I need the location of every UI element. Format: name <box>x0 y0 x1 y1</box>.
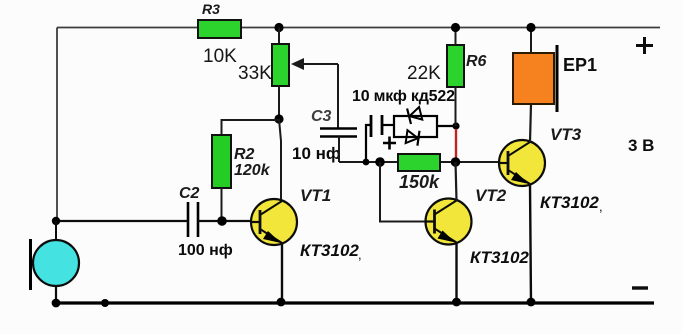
resistor R2 <box>212 135 231 188</box>
node 150k right junction <box>451 157 461 167</box>
wire 33K bottom lead <box>278 86 280 119</box>
node A top junction of 33K <box>274 23 283 32</box>
wire collector VT1 <box>279 119 281 200</box>
wiper arrow of 33K <box>302 63 338 65</box>
wire red segment <box>455 129 457 158</box>
node R6 top on rail <box>451 23 460 32</box>
wire R6 bottom lead <box>455 87 457 126</box>
resistor 33K (trimmer) <box>272 44 289 86</box>
wire mic to C2 <box>57 220 188 222</box>
node B junction 33K/R2/VT1 collector <box>274 114 283 123</box>
sounder EP1 <box>530 28 532 54</box>
svg-text:120k: 120k <box>234 162 271 179</box>
resistor R6 <box>447 45 464 87</box>
wire VT2 collector <box>456 162 457 201</box>
svg-text:VT2: VT2 <box>475 186 507 205</box>
wire wiper to C3 top <box>337 64 339 128</box>
wire 33K top lead <box>278 28 280 45</box>
node C4 left on base net <box>363 159 370 166</box>
svg-text:R3: R3 <box>202 1 220 17</box>
node mic bottom on rail <box>52 299 61 308</box>
wire R2 bottom lead <box>221 188 223 221</box>
node VT3 emitter on rail <box>527 298 536 307</box>
svg-text:VT1: VT1 <box>300 186 331 205</box>
svg-text:КТ3102: КТ3102 <box>300 241 359 260</box>
wire bottom rail <box>56 301 654 304</box>
microphone BM1 <box>29 239 32 290</box>
wire diode box to R6 net <box>437 125 456 127</box>
svg-text:100 нф: 100 нф <box>178 242 233 259</box>
wire left rail <box>56 28 58 222</box>
svg-text:,: , <box>599 199 603 214</box>
svg-text:22K: 22K <box>407 63 441 84</box>
wire VT2 base branch <box>380 162 426 222</box>
node VT2 base branch <box>375 157 385 167</box>
wire VT3 collector to EP1 <box>530 104 531 142</box>
resistor 150k <box>398 154 440 171</box>
svg-text:3 В: 3 В <box>628 136 654 155</box>
svg-text:C3: C3 <box>311 108 332 125</box>
resistor R3 <box>198 20 241 38</box>
svg-text:33K: 33K <box>238 63 272 84</box>
wire VT2 emitter to rail <box>455 243 457 304</box>
capacitor C3 <box>320 127 357 130</box>
diode VD1 top (points left) <box>407 106 423 124</box>
svg-text:10 нф: 10 нф <box>292 144 341 163</box>
node mic top <box>52 217 60 225</box>
diode VD2 bottom (points right) <box>406 129 420 146</box>
svg-text:КТ3102: КТ3102 <box>470 248 529 267</box>
diode box VD1 VD2 кд522 <box>394 116 437 137</box>
wire C2 to VT1 base <box>198 220 252 222</box>
svg-text:R2: R2 <box>234 146 255 163</box>
svg-text:10 мкф кд522: 10 мкф кд522 <box>352 88 455 105</box>
wire R2 top lead <box>222 120 280 135</box>
node diode/R6 junction <box>452 122 459 129</box>
wire base net horizontal <box>339 161 500 163</box>
svg-text:C2: C2 <box>179 185 200 202</box>
svg-text:,: , <box>358 247 362 262</box>
svg-text:VT3: VT3 <box>550 125 582 144</box>
svg-text:EP1: EP1 <box>563 55 597 75</box>
svg-text:R6: R6 <box>466 53 487 70</box>
wire VT1 emitter to rail <box>281 243 283 303</box>
transistor VT2 <box>426 199 472 245</box>
wire C3 bottom to net <box>338 137 340 163</box>
wire top rail <box>57 27 660 29</box>
svg-text:150k: 150k <box>399 172 440 192</box>
node rail junction <box>101 299 109 307</box>
battery minus label <box>632 286 648 289</box>
transistor VT3 <box>499 140 545 186</box>
svg-text:10K: 10K <box>203 46 237 67</box>
battery plus label <box>636 37 653 54</box>
node VT2 emitter on rail <box>452 298 461 307</box>
transistor VT1 <box>251 199 297 245</box>
svg-text:КТ3102: КТ3102 <box>540 193 599 212</box>
node C2/R2/base junction <box>217 216 227 226</box>
capacitor C2 <box>187 202 190 237</box>
wire VT3 emitter to rail <box>530 184 531 303</box>
node VT1 emitter on rail <box>277 298 286 307</box>
wire R6 top lead <box>455 28 457 46</box>
